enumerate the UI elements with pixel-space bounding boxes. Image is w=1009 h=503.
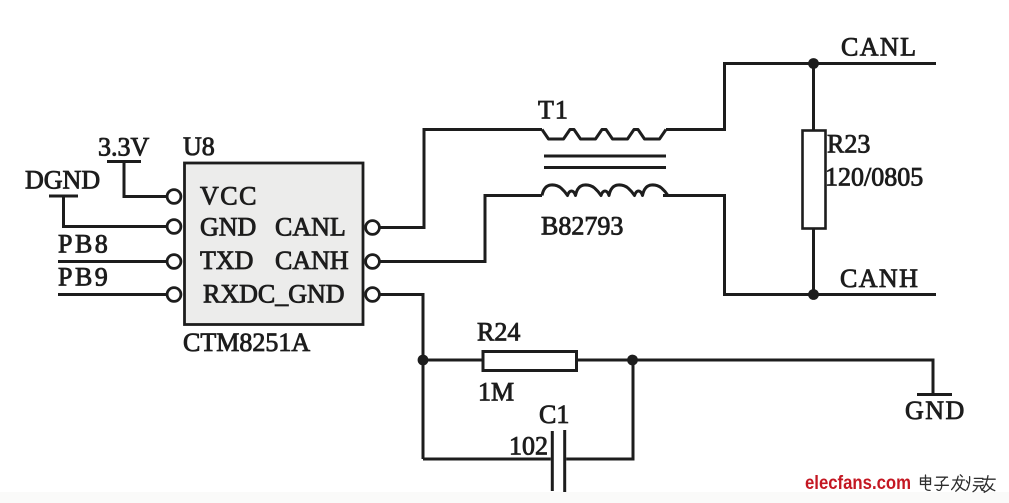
svg-text:T1: T1 bbox=[538, 96, 569, 125]
IC U8 body bbox=[183, 132, 363, 325]
svg-text:GND: GND bbox=[905, 396, 966, 425]
wire PB9 to RXD pin bbox=[58, 293, 167, 296]
svg-text:B82793: B82793 bbox=[541, 212, 623, 241]
resistor R23 bbox=[803, 64, 826, 295]
resistor R24 bbox=[423, 352, 633, 371]
wire bottom loop left bbox=[423, 458, 551, 461]
svg-text:VCC: VCC bbox=[200, 182, 258, 211]
pin CANH bbox=[275, 246, 379, 275]
友 bbox=[982, 476, 995, 493]
svg-text:CTM8251A: CTM8251A bbox=[183, 328, 310, 357]
svg-text:CANH: CANH bbox=[275, 246, 349, 275]
resistor R24 label bbox=[477, 318, 520, 347]
pin GND bbox=[167, 213, 256, 242]
烧 bbox=[966, 477, 984, 492]
power symbol 3.3V bbox=[98, 133, 150, 162]
capacitor C1 value 102 bbox=[509, 432, 548, 461]
transformer T1 primary winding bbox=[542, 130, 666, 140]
junction on CANH bbox=[808, 289, 819, 300]
watermark elecfans.com bbox=[805, 473, 911, 494]
svg-text:1M: 1M bbox=[478, 378, 514, 407]
IC U8 value CTM8251A bbox=[183, 328, 310, 357]
wire C_GND pin down to RC loop bbox=[380, 295, 424, 460]
wire transformer top to CANL bus bbox=[666, 64, 725, 130]
transformer T1 secondary winding bbox=[542, 185, 668, 196]
transformer T1 core bbox=[544, 156, 666, 168]
svg-text:PB8: PB8 bbox=[58, 230, 110, 259]
svg-text:R24: R24 bbox=[477, 318, 520, 347]
resistor R23 label bbox=[827, 130, 870, 159]
svg-text:elecfans.com: elecfans.com bbox=[805, 473, 911, 494]
resistor R24 value 1M bbox=[478, 378, 514, 407]
svg-text:C1: C1 bbox=[539, 400, 569, 429]
svg-text:102: 102 bbox=[509, 432, 548, 461]
pin CANL bbox=[275, 213, 379, 242]
svg-text:CANL: CANL bbox=[275, 213, 346, 242]
svg-text:U8: U8 bbox=[183, 132, 215, 161]
junction on CANL bbox=[808, 58, 819, 69]
svg-text:R23: R23 bbox=[827, 130, 870, 159]
wire R24 to GND bbox=[633, 360, 934, 394]
pin TXD bbox=[167, 246, 253, 275]
电 bbox=[921, 475, 931, 490]
svg-text:CANH: CANH bbox=[840, 264, 919, 293]
svg-text:GND: GND bbox=[200, 213, 256, 242]
capacitor C1 bbox=[552, 430, 564, 492]
watermark chinese 电子发烧友 bbox=[921, 475, 996, 493]
transformer T1 label bbox=[538, 96, 569, 125]
resistor R23 value 120/0805 bbox=[825, 163, 923, 192]
node PB8 bbox=[58, 230, 110, 259]
pin RXD bbox=[167, 280, 344, 309]
svg-text:TXD: TXD bbox=[200, 246, 253, 275]
node CANH bus bbox=[723, 264, 936, 295]
wire CANL pin to transformer top winding bbox=[380, 130, 543, 228]
capacitor C1 label bbox=[539, 400, 569, 429]
transformer T1 value B82793 bbox=[541, 212, 623, 241]
junction right of R24 bbox=[627, 355, 638, 366]
node PB9 bbox=[58, 263, 110, 292]
wire 3.3V to VCC pin bbox=[124, 162, 167, 197]
svg-text:3.3V: 3.3V bbox=[98, 133, 150, 162]
pin VCC bbox=[167, 182, 258, 211]
wire transformer bottom to CANH bus bbox=[663, 196, 725, 295]
junction left of R24 bbox=[418, 355, 429, 366]
svg-text:RXDC_GND: RXDC_GND bbox=[203, 280, 345, 309]
svg-text:120/0805: 120/0805 bbox=[825, 163, 923, 192]
wire PB8 to TXD pin bbox=[58, 260, 167, 263]
node CANL bus bbox=[723, 33, 936, 64]
svg-text:CANL: CANL bbox=[841, 33, 917, 62]
发 bbox=[952, 475, 966, 491]
svg-text:DGND: DGND bbox=[25, 166, 100, 195]
wire DGND to GND pin bbox=[64, 196, 167, 227]
ground DGND bbox=[25, 166, 100, 197]
pin C_GND bbox=[366, 288, 380, 302]
ground GND bbox=[905, 395, 966, 426]
子 bbox=[935, 477, 949, 490]
svg-text:PB9: PB9 bbox=[58, 263, 110, 292]
wire bottom loop right bbox=[566, 360, 633, 459]
wire CANH pin to transformer bottom winding bbox=[380, 196, 543, 262]
